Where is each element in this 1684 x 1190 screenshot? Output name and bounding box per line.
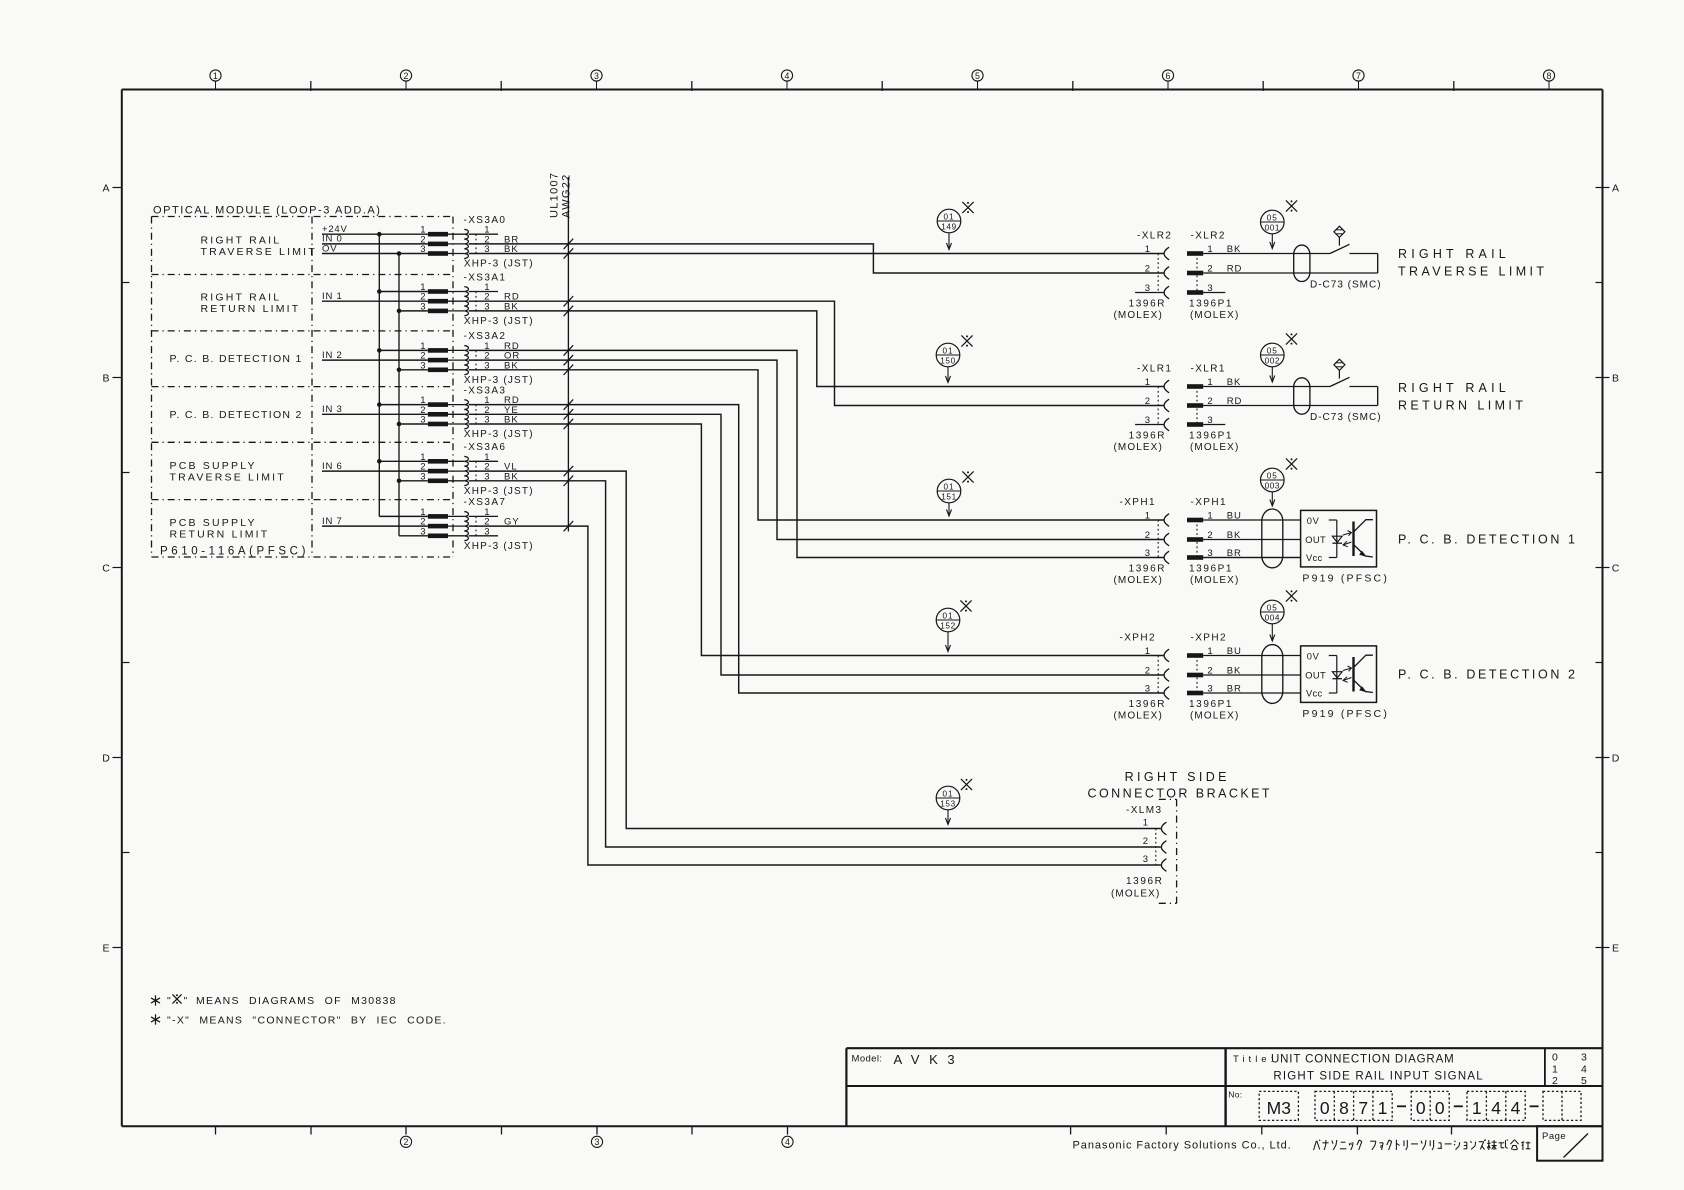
svg-text:UNIT CONNECTION DIAGRAM: UNIT CONNECTION DIAGRAM: [1271, 1054, 1455, 1066]
svg-text:A: A: [102, 183, 109, 195]
svg-text:3: 3: [420, 471, 425, 482]
svg-text:2: 2: [1145, 666, 1150, 677]
svg-text:PCB SUPPLY: PCB SUPPLY: [170, 517, 257, 529]
svg-text:7: 7: [1356, 71, 1361, 81]
svg-text:RIGHT RAIL: RIGHT RAIL: [201, 292, 282, 304]
svg-text:UL1007: UL1007: [549, 172, 561, 218]
svg-text:PCB SUPPLY: PCB SUPPLY: [170, 460, 257, 472]
svg-text:A: A: [1612, 183, 1619, 195]
svg-text:2: 2: [404, 1137, 409, 1147]
svg-text:RETURN LIMIT: RETURN LIMIT: [1398, 399, 1526, 413]
svg-text:1396P1: 1396P1: [1189, 431, 1233, 442]
svg-text:1396P1: 1396P1: [1189, 699, 1233, 710]
svg-text:2: 2: [1145, 396, 1150, 407]
svg-text:0: 0: [1320, 1098, 1330, 1118]
svg-text:1: 1: [1145, 646, 1150, 657]
svg-text:XHP-3 (JST): XHP-3 (JST): [464, 486, 534, 497]
svg-text:0V: 0V: [1307, 516, 1320, 526]
svg-text:P. C. B. DETECTION 2: P. C. B. DETECTION 2: [1398, 668, 1578, 682]
svg-text:Page: Page: [1542, 1131, 1566, 1142]
svg-text:1396P1: 1396P1: [1189, 299, 1233, 310]
svg-text:1396R: 1396R: [1129, 699, 1166, 710]
svg-text:(MOLEX): (MOLEX): [1114, 575, 1163, 586]
svg-text:P. C. B. DETECTION 1: P. C. B. DETECTION 1: [170, 353, 303, 365]
svg-text:": ": [184, 995, 188, 1007]
svg-text:8: 8: [1547, 71, 1552, 81]
svg-text:1: 1: [1378, 1098, 1388, 1118]
svg-text:OPTICAL MODULE (LOOP-3 ADD.A): OPTICAL MODULE (LOOP-3 ADD.A): [153, 205, 382, 217]
svg-text:AWG22: AWG22: [560, 173, 572, 218]
svg-text:RIGHT RAIL: RIGHT RAIL: [201, 234, 282, 246]
svg-text:RIGHT RAIL: RIGHT RAIL: [1398, 247, 1510, 261]
svg-text:3: 3: [420, 360, 425, 371]
svg-text:05: 05: [1267, 472, 1278, 481]
svg-text:003: 003: [1265, 481, 1280, 490]
svg-text:E: E: [1612, 943, 1619, 955]
svg-text:XHP-3 (JST): XHP-3 (JST): [464, 316, 534, 327]
svg-text:(MOLEX): (MOLEX): [1190, 575, 1239, 586]
svg-text:2: 2: [1143, 836, 1148, 847]
svg-text:2: 2: [1145, 530, 1150, 541]
svg-text:XHP-3 (JST): XHP-3 (JST): [464, 375, 534, 386]
svg-text:IN 2: IN 2: [322, 350, 343, 361]
svg-text:-XLR2: -XLR2: [1137, 231, 1172, 242]
svg-text:(MOLEX): (MOLEX): [1111, 889, 1160, 900]
svg-text:3: 3: [420, 244, 425, 255]
svg-text:D: D: [102, 753, 110, 765]
svg-text:05: 05: [1267, 347, 1278, 356]
svg-text:002: 002: [1265, 356, 1280, 365]
svg-text:P. C. B. DETECTION 1: P. C. B. DETECTION 1: [1398, 533, 1578, 547]
svg-text:01: 01: [943, 483, 954, 492]
svg-text:(MOLEX): (MOLEX): [1190, 310, 1239, 321]
svg-text:0: 0: [1435, 1098, 1445, 1118]
svg-text:MEANS DIAGRAMS OF M30838: MEANS DIAGRAMS OF M30838: [196, 995, 397, 1007]
svg-text:3: 3: [594, 71, 599, 81]
svg-text:153: 153: [940, 799, 955, 808]
svg-text:AVK3: AVK3: [894, 1052, 965, 1067]
svg-text:OUT: OUT: [1305, 671, 1326, 681]
svg-text:IN 3: IN 3: [322, 404, 343, 415]
svg-text:RETURN LIMIT: RETURN LIMIT: [201, 303, 301, 315]
svg-text:IN 1: IN 1: [322, 291, 343, 302]
svg-text:"-X" MEANS "CONNECTOR" BY IEC: "-X" MEANS "CONNECTOR" BY IEC CODE.: [167, 1014, 447, 1026]
svg-text:1: 1: [213, 71, 218, 81]
svg-text:P919 (PFSC): P919 (PFSC): [1302, 708, 1389, 720]
svg-text:3: 3: [1581, 1052, 1587, 1064]
svg-text:1: 1: [1472, 1098, 1482, 1118]
svg-text:4: 4: [1511, 1098, 1521, 1118]
svg-text:1: 1: [1552, 1063, 1558, 1075]
svg-text:RIGHT SIDE: RIGHT SIDE: [1125, 770, 1230, 784]
svg-text:D: D: [1612, 753, 1620, 765]
svg-text:3: 3: [595, 1137, 600, 1147]
svg-text:1396R: 1396R: [1129, 564, 1166, 575]
svg-text:IN 6: IN 6: [322, 461, 343, 472]
svg-text:OV: OV: [322, 243, 337, 254]
svg-text:TRAVERSE LIMIT: TRAVERSE LIMIT: [1398, 265, 1547, 279]
svg-text:RIGHT SIDE RAIL INPUT SIGNAL: RIGHT SIDE RAIL INPUT SIGNAL: [1273, 1071, 1483, 1083]
svg-text:05: 05: [1267, 214, 1278, 223]
svg-text:01: 01: [942, 790, 953, 799]
svg-text:P. C. B. DETECTION 2: P. C. B. DETECTION 2: [170, 409, 303, 421]
svg-text:3: 3: [420, 526, 425, 537]
svg-text:B: B: [102, 373, 109, 385]
svg-text:XHP-3 (JST): XHP-3 (JST): [464, 259, 534, 270]
svg-text:XHP-3 (JST): XHP-3 (JST): [464, 541, 534, 552]
svg-text:1396R: 1396R: [1126, 876, 1163, 887]
svg-text:TRAVERSE LIMIT: TRAVERSE LIMIT: [201, 246, 317, 258]
svg-text:2: 2: [404, 71, 409, 81]
svg-text:6: 6: [1166, 71, 1171, 81]
svg-text:1: 1: [1145, 377, 1150, 388]
svg-text:149: 149: [941, 222, 956, 231]
svg-text:(MOLEX): (MOLEX): [1114, 442, 1163, 453]
svg-text:2: 2: [1552, 1075, 1558, 1087]
svg-text:-XPH2: -XPH2: [1120, 633, 1156, 644]
svg-text:5: 5: [1581, 1075, 1587, 1087]
svg-text:(MOLEX): (MOLEX): [1190, 711, 1239, 722]
svg-text:7: 7: [1358, 1098, 1368, 1118]
svg-text:-XPH1: -XPH1: [1120, 497, 1156, 508]
svg-text:0: 0: [1416, 1098, 1426, 1118]
svg-text:RIGHT RAIL: RIGHT RAIL: [1398, 381, 1510, 395]
svg-text:XHP-3 (JST): XHP-3 (JST): [464, 429, 534, 440]
svg-text:C: C: [102, 563, 110, 575]
svg-text:152: 152: [940, 621, 955, 630]
svg-text:004: 004: [1265, 613, 1280, 622]
svg-text:1396P1: 1396P1: [1189, 564, 1233, 575]
svg-text:D-C73 (SMC): D-C73 (SMC): [1310, 280, 1382, 291]
svg-text:D-C73 (SMC): D-C73 (SMC): [1310, 412, 1382, 423]
svg-text:M3: M3: [1267, 1098, 1291, 1118]
svg-text:P919 (PFSC): P919 (PFSC): [1302, 572, 1389, 584]
svg-text:01: 01: [942, 612, 953, 621]
svg-text:B: B: [1612, 373, 1619, 385]
svg-text:-XLR2: -XLR2: [1191, 231, 1226, 242]
svg-text:3: 3: [1145, 684, 1150, 695]
svg-text:TRAVERSE LIMIT: TRAVERSE LIMIT: [170, 471, 286, 483]
svg-text:CONNECTOR BRACKET: CONNECTOR BRACKET: [1088, 787, 1273, 801]
svg-text:-XPH2: -XPH2: [1191, 633, 1227, 644]
svg-text:5: 5: [975, 71, 980, 81]
svg-text:Model:: Model:: [852, 1054, 883, 1065]
svg-text:01: 01: [942, 347, 953, 356]
svg-text:RETURN LIMIT: RETURN LIMIT: [170, 529, 270, 541]
svg-text:0V: 0V: [1307, 652, 1320, 662]
svg-text:1: 1: [1145, 244, 1150, 255]
svg-text:3: 3: [1143, 854, 1148, 865]
svg-text:C: C: [1612, 563, 1620, 575]
svg-text:8: 8: [1339, 1098, 1349, 1118]
svg-text:(MOLEX): (MOLEX): [1114, 310, 1163, 321]
svg-text:P610-116A(PFSC): P610-116A(PFSC): [160, 546, 309, 558]
svg-text:3: 3: [1145, 548, 1150, 559]
svg-text:4: 4: [1491, 1098, 1501, 1118]
svg-text:4: 4: [1581, 1063, 1587, 1075]
svg-text:(MOLEX): (MOLEX): [1114, 711, 1163, 722]
svg-text:-XLM3: -XLM3: [1126, 805, 1162, 816]
svg-text:Panasonic Factory Solutions Co: Panasonic Factory Solutions Co., Ltd.: [1073, 1140, 1292, 1152]
svg-text:2: 2: [1145, 264, 1150, 275]
svg-text:1: 1: [1143, 818, 1148, 829]
svg-text:01: 01: [943, 213, 954, 222]
svg-text:4: 4: [785, 1137, 790, 1147]
svg-text:No:: No:: [1228, 1090, 1242, 1100]
svg-text:Vcc: Vcc: [1306, 689, 1322, 699]
svg-text:(MOLEX): (MOLEX): [1190, 442, 1239, 453]
svg-text:Vcc: Vcc: [1306, 553, 1322, 563]
svg-text:1396R: 1396R: [1129, 299, 1166, 310]
svg-text:0: 0: [1552, 1052, 1558, 1064]
svg-text:1396R: 1396R: [1129, 431, 1166, 442]
svg-text:-XLR1: -XLR1: [1191, 364, 1226, 375]
svg-text:IN 7: IN 7: [322, 516, 343, 527]
svg-text:3: 3: [420, 301, 425, 312]
svg-text:05: 05: [1267, 604, 1278, 613]
svg-text:151: 151: [941, 492, 956, 501]
svg-text:001: 001: [1265, 223, 1280, 232]
svg-text:-XPH1: -XPH1: [1191, 497, 1227, 508]
svg-text:3: 3: [420, 415, 425, 426]
svg-text:-XLR1: -XLR1: [1137, 364, 1172, 375]
svg-text:4: 4: [785, 71, 790, 81]
svg-text:150: 150: [940, 356, 955, 365]
svg-text:E: E: [102, 943, 109, 955]
svg-text:1: 1: [1145, 511, 1150, 522]
svg-text:": ": [167, 995, 171, 1007]
svg-text:OUT: OUT: [1305, 535, 1326, 545]
